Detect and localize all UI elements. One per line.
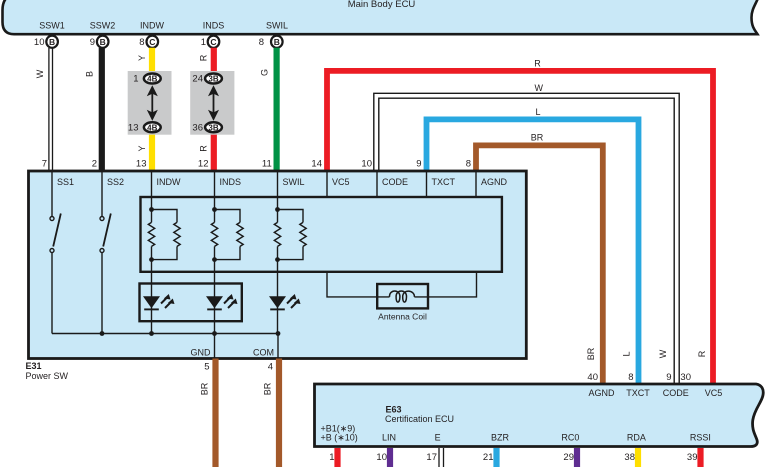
svg-text:3B: 3B [208,123,218,132]
svg-text:VC5: VC5 [705,388,723,398]
svg-text:8: 8 [628,372,633,383]
svg-text:W: W [35,69,45,78]
svg-text:SWIL: SWIL [266,21,288,31]
svg-text:4B: 4B [147,75,157,84]
inner block rectangle [141,197,502,272]
resistor pair SWIL [274,222,280,246]
connector block 4B (INDW, gray) [128,71,172,135]
svg-text:40: 40 [587,372,598,383]
svg-text:39: 39 [687,452,698,463]
svg-text:13: 13 [136,159,147,170]
wire +B (red) bottom stub [334,448,340,467]
svg-text:10: 10 [361,159,372,170]
coil symbol [389,291,414,302]
svg-text:R: R [199,54,209,61]
svg-text:SWIL: SWIL [283,177,305,187]
svg-text:BZR: BZR [491,432,510,442]
arrow pair (INDW block) [151,93,153,113]
LED INDS [206,294,238,309]
svg-text:4: 4 [268,362,273,373]
wire L (TXCT loop, blue) [427,119,639,384]
wire BR (COM, brown) [276,359,282,467]
wire SS2 into switch [101,171,103,216]
svg-text:INDS: INDS [203,21,225,31]
wire RC0 (purple) [574,448,580,467]
svg-text:1: 1 [329,452,334,463]
arrow pair (INDS block) [213,93,215,113]
svg-text:Main Body ECU: Main Body ECU [348,0,416,10]
svg-text:12: 12 [198,159,209,170]
svg-text:2: 2 [92,159,97,170]
wire RDA (yellow) [635,448,641,467]
svg-text:B: B [100,37,106,47]
svg-text:L: L [622,351,632,356]
wire G (SWIL, green) [274,48,280,171]
svg-text:30: 30 [680,372,691,383]
svg-text:G: G [260,69,270,76]
svg-text:INDS: INDS [220,177,242,187]
wire E (white) [438,448,440,467]
svg-text:Y: Y [137,55,147,61]
ECU block E31 Power SW [29,171,527,359]
svg-text:29: 29 [563,452,574,463]
svg-text:8: 8 [466,159,471,170]
svg-text:14: 14 [311,159,322,170]
svg-text:10: 10 [34,37,45,48]
svg-text:36: 36 [192,122,203,133]
resistor pair INDS [211,222,217,246]
svg-text:9: 9 [416,159,421,170]
svg-text:E: E [435,432,441,442]
svg-text:BR: BR [263,382,273,395]
wire Y (INDW, yellow) [149,48,155,171]
svg-text:GND: GND [191,348,212,358]
svg-text:38: 38 [624,452,635,463]
svg-text:21: 21 [483,452,494,463]
LED box [140,284,242,322]
svg-text:CODE: CODE [382,177,408,187]
svg-text:BR: BR [531,133,544,143]
wire AGND stub [475,171,477,197]
wire LIN (purple) [387,448,393,467]
LED SWIL [269,294,301,309]
wire CODE stub [376,171,378,197]
ground bus wire [52,333,278,335]
svg-text:RSSI: RSSI [690,432,711,442]
wire INDW vertical [151,171,153,222]
svg-text:4B: 4B [147,123,157,132]
svg-text:AGND: AGND [588,388,615,398]
svg-text:1: 1 [133,74,138,85]
svg-text:RC0: RC0 [561,432,579,442]
wire B (SSW2, black) [99,48,105,171]
svg-text:13: 13 [128,122,139,133]
svg-text:Antenna Coil: Antenna Coil [378,312,427,322]
wire W (SSW1, white) [48,48,50,171]
svg-text:+B (∗10): +B (∗10) [321,432,358,442]
svg-text:11: 11 [262,159,272,170]
svg-text:COM: COM [253,348,274,358]
svg-text:INDW: INDW [140,21,164,31]
svg-text:INDW: INDW [157,177,181,187]
wire RSSI (red) [697,448,703,467]
wire VC5 stub [326,171,328,197]
svg-text:C: C [149,37,155,47]
svg-text:R: R [199,145,209,152]
svg-text:B: B [85,71,95,77]
svg-text:Certification ECU: Certification ECU [385,414,454,424]
wire TXCT stub [426,171,428,197]
wire COM down [277,334,279,359]
svg-text:W: W [658,349,668,358]
ECU block E63 Certification ECU [315,384,764,447]
svg-text:24: 24 [192,74,203,85]
svg-text:SS1: SS1 [57,177,74,187]
svg-text:SS2: SS2 [107,177,124,187]
svg-text:E31: E31 [26,361,42,371]
svg-text:RDA: RDA [627,432,646,442]
switch SS1 [50,217,54,221]
wire SS1 into switch [51,171,53,216]
svg-text:C: C [210,37,216,47]
svg-text:5: 5 [204,362,209,373]
wire GND down [214,334,216,359]
svg-text:B: B [274,37,280,47]
wire R (VC5 loop to Certification ECU) [327,71,713,384]
svg-text:Power SW: Power SW [26,371,69,381]
svg-text:LIN: LIN [382,432,396,442]
wire BR (GND, brown) [212,359,218,467]
svg-text:B: B [49,37,55,47]
wire SWIL vertical [277,171,279,222]
switch SS2 [100,217,104,221]
svg-text:1: 1 [201,37,206,48]
antenna coil box [377,284,428,308]
svg-text:R: R [697,350,707,357]
ECU block Main Body ECU (top band) [3,0,760,34]
svg-text:Y: Y [137,145,147,151]
resistor pair INDW [148,222,154,246]
svg-text:R: R [534,58,541,68]
antenna coil connections [327,272,477,297]
wire INDS vertical [214,171,216,222]
svg-text:9: 9 [90,37,95,48]
wire W (CODE loop, white) [374,93,679,384]
svg-text:AGND: AGND [481,177,508,187]
svg-text:8: 8 [259,37,264,48]
svg-text:TXCT: TXCT [432,177,456,187]
wire BR (AGND loop, brown) [476,145,603,384]
svg-text:SSW2: SSW2 [90,21,116,31]
svg-text:E63: E63 [386,404,402,414]
svg-text:CODE: CODE [663,388,689,398]
svg-text:9: 9 [666,372,671,383]
svg-text:W: W [534,83,543,93]
svg-text:L: L [535,107,540,117]
wire BZR (blue) [493,448,499,467]
svg-text:BR: BR [200,382,210,395]
svg-text:3B: 3B [208,75,218,84]
svg-text:8: 8 [139,37,144,48]
svg-text:7: 7 [42,159,47,170]
svg-text:SSW1: SSW1 [39,21,65,31]
svg-text:VC5: VC5 [332,177,350,187]
svg-text:17: 17 [426,452,437,463]
LED INDW [143,294,175,309]
wire R (INDS, red) [211,48,217,171]
svg-text:10: 10 [376,452,387,463]
connector block 3B (INDS, gray) [190,71,234,135]
svg-text:TXCT: TXCT [626,388,650,398]
svg-text:BR: BR [586,347,596,360]
